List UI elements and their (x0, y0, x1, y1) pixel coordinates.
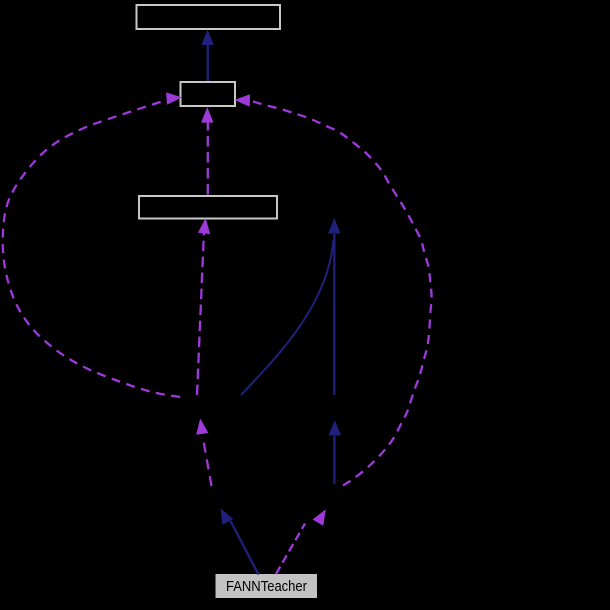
node box (third-level class) (139, 196, 277, 219)
svg-text:FANNTeacher: FANNTeacher (226, 579, 307, 595)
edge: solid blue vertical arrow (lower segment) (329, 420, 341, 484)
node box (second-level class) (181, 82, 236, 106)
node box (top class) (137, 5, 281, 29)
edge: solid blue curve joining upper arrow (241, 240, 334, 395)
edge: solid inheritance arrow, small box to top box (201, 30, 213, 82)
edge: dashed purple arrow from FANNTeacher (276, 509, 326, 574)
edge: solid blue inheritance arrow from FANNTeacher (221, 508, 259, 574)
edge: short dashed arrow lower-left hidden nodes (196, 419, 211, 487)
edge: solid blue vertical arrow (upper segment) (328, 218, 340, 395)
edge: big left dashed curve into small box left side (3, 92, 182, 397)
edge: dashed arrow, middle box to small box (201, 107, 213, 194)
node FANNTeacher (216, 574, 318, 598)
edge: big right dashed curve into small box right side (234, 94, 431, 485)
edge: dashed arrow, hidden node up to middle box (197, 218, 210, 395)
